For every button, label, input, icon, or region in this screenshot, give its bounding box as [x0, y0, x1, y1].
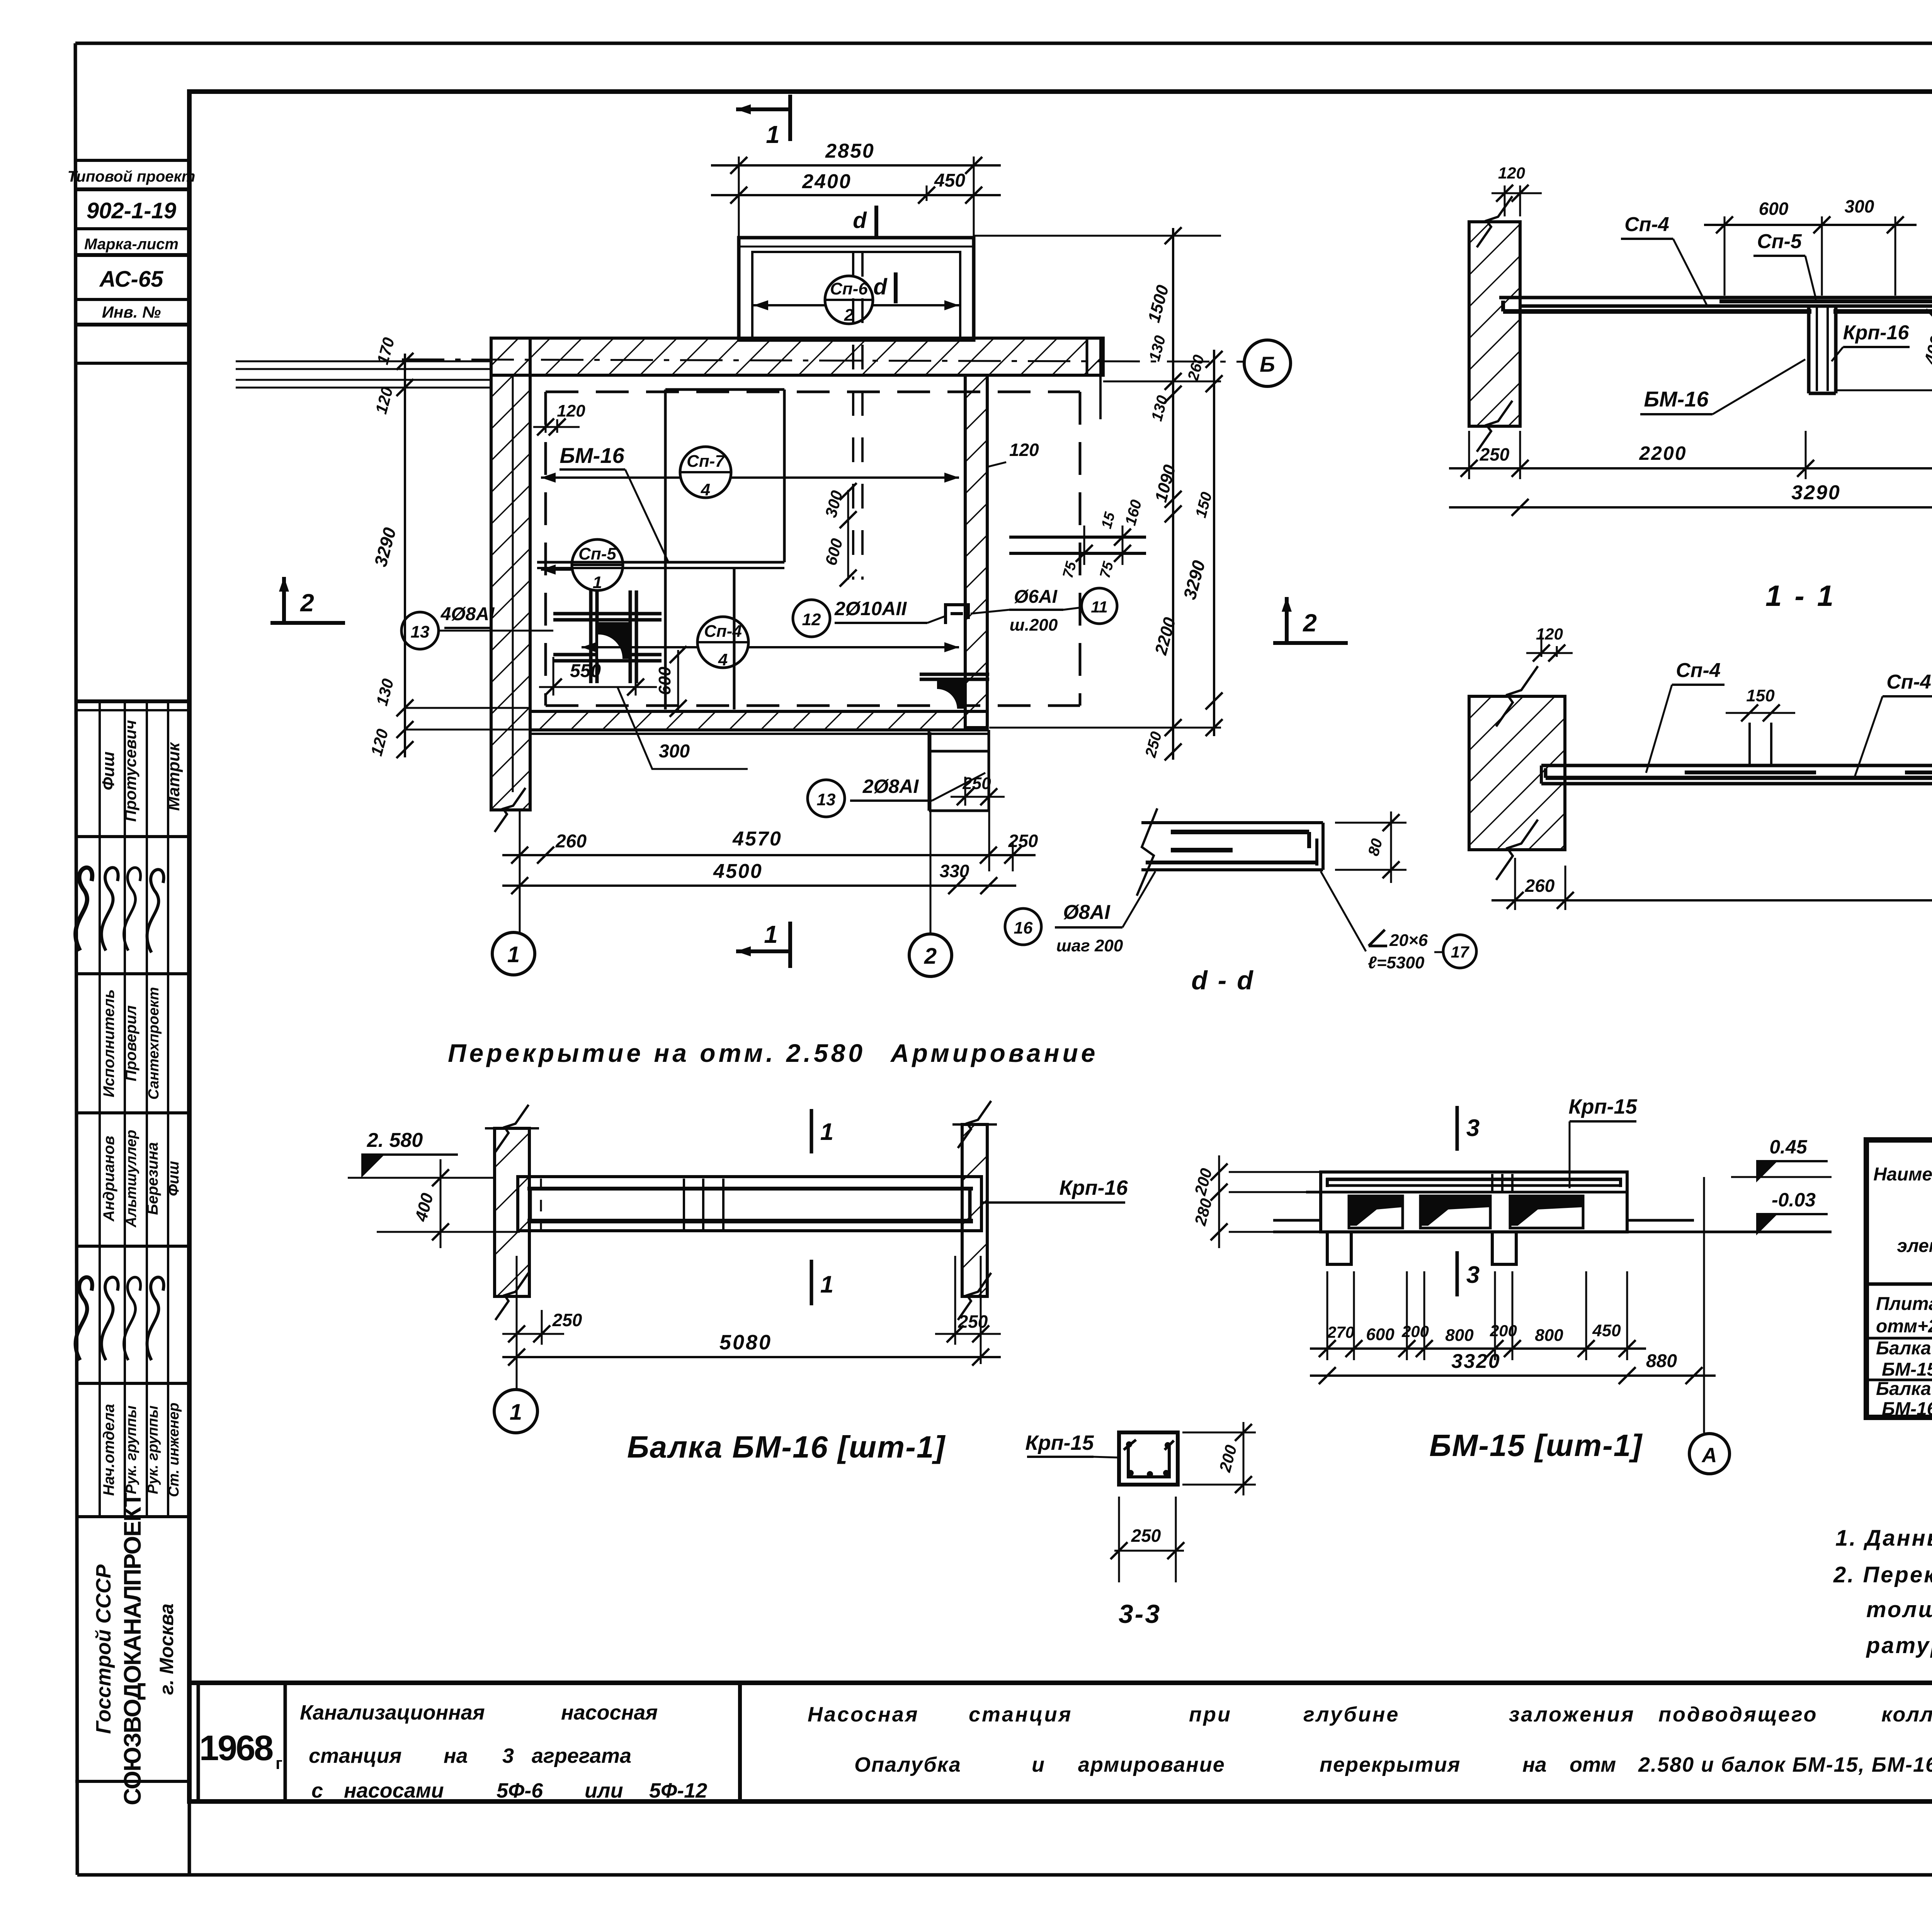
plan wall B end face line [1099, 338, 1102, 419]
signature grid [75, 699, 189, 703]
svg-text:600: 600 [655, 667, 674, 695]
svg-text:200: 200 [1490, 1322, 1517, 1340]
left strip vertical edge [188, 160, 191, 1875]
svg-text:1: 1 [820, 1271, 833, 1298]
svg-text:глубине: глубине [1303, 1703, 1400, 1726]
plan dim 600 rot [677, 650, 679, 713]
svg-text:2. 580: 2. 580 [367, 1129, 423, 1152]
svg-text:Госстрой СССР: Госстрой СССР [92, 1564, 115, 1734]
svg-text:1: 1 [593, 573, 602, 592]
svg-text:БМ-16: БМ-16 [1882, 1399, 1932, 1419]
svg-text:подводящего: подводящего [1658, 1703, 1818, 1726]
svg-text:1: 1 [766, 121, 780, 148]
svg-text:2: 2 [924, 944, 937, 969]
d-d label 17 angle [1369, 930, 1385, 946]
svg-text:СОЮЗВОДОКАНАЛПРОЕКТ: СОЮЗВОДОКАНАЛПРОЕКТ [119, 1492, 146, 1805]
bm16 right wall hatched [962, 1124, 987, 1296]
svg-text:3320: 3320 [1451, 1350, 1501, 1373]
section 1-1 dim 3290 [1449, 506, 1932, 509]
svg-text:Крп-15: Крп-15 [1568, 1095, 1637, 1118]
svg-text:600: 600 [1759, 199, 1789, 219]
svg-text:Перекрытие на отм. 2.580: Перекрытие на отм. 2.580 [448, 1039, 866, 1067]
svg-text:270: 270 [1327, 1323, 1354, 1341]
svg-text:11: 11 [1091, 598, 1108, 616]
plan dim 550 [553, 657, 554, 696]
plan sump below [928, 730, 930, 811]
bm16 top bar [527, 1187, 973, 1191]
svg-text:Проверил: Проверил [122, 1005, 139, 1081]
organization box [75, 1780, 189, 1783]
svg-text:шаг 200: шаг 200 [1056, 936, 1123, 955]
svg-text:на: на [1522, 1753, 1547, 1776]
svg-text:перекрытия: перекрытия [1320, 1753, 1461, 1776]
plan left dim chain [404, 354, 406, 757]
plan label 13 left 4d8AI [401, 612, 439, 649]
svg-text:5Ф-12: 5Ф-12 [649, 1779, 707, 1802]
svg-text:Исполнитель: Исполнитель [100, 989, 117, 1097]
bm15 rib stubs [1327, 1232, 1351, 1264]
d-d bars [1171, 830, 1309, 834]
bm16 bottom bar [527, 1219, 973, 1223]
section 1-1 dim 120 top [1504, 185, 1506, 216]
svg-text:1: 1 [507, 942, 520, 967]
svg-text:Крп-16: Крп-16 [1059, 1176, 1128, 1199]
svg-text:3: 3 [1466, 1262, 1480, 1288]
plan corner embed plate right [937, 680, 965, 709]
svg-text:г. Москва: г. Москва [156, 1604, 177, 1695]
plan extension joint dashed pair [852, 252, 854, 580]
svg-text:1 - 1: 1 - 1 [1765, 580, 1836, 612]
svg-text:Типовой проект: Типовой проект [68, 168, 196, 185]
svg-text:Березина: Березина [144, 1142, 161, 1215]
plan dims 300 600 right rot [847, 490, 849, 580]
bm16 dashed end [540, 1179, 542, 1230]
plan right wall A hatched [965, 375, 987, 728]
svg-text:4: 4 [718, 650, 728, 669]
bm15 flange rebar [1326, 1178, 1622, 1181]
svg-text:1. Данный лист см. совместн: 1. Данный лист см. совместно с листом АС… [1835, 1526, 1932, 1551]
materials table frame [1866, 1140, 1932, 1417]
bm15 dim 3320 [1310, 1374, 1646, 1377]
svg-text:260: 260 [1525, 876, 1555, 896]
svg-text:250: 250 [962, 774, 991, 793]
svg-text:13: 13 [817, 790, 836, 809]
svg-text:насосами: насосами [344, 1779, 444, 1802]
svg-text:А: А [1701, 1444, 1717, 1467]
svg-text:Плита на: Плита на [1876, 1294, 1932, 1314]
d-d slab piece [1141, 821, 1323, 824]
3-3 dim 250 [1118, 1497, 1120, 1582]
svg-text:2: 2 [300, 589, 314, 617]
svg-text:станция: станция [969, 1703, 1072, 1726]
plan top dim 2850 [738, 156, 740, 238]
bm16 dim 5080 [502, 1356, 1001, 1358]
plan top wall hatched [491, 338, 1103, 375]
3-3 square outline [1119, 1432, 1178, 1485]
svg-text:1: 1 [764, 920, 778, 948]
svg-text:d: d [873, 274, 888, 299]
svg-text:4500: 4500 [713, 860, 763, 883]
svg-text:120: 120 [557, 401, 585, 420]
plan section mark 2 left [282, 577, 286, 623]
bm15 bottom dim chain [1327, 1271, 1328, 1360]
plan dim 120 left small [545, 406, 547, 433]
svg-text:2Ø8АI: 2Ø8АI [862, 776, 919, 797]
svg-text:-0.03: -0.03 [1772, 1189, 1816, 1211]
svg-text:Ø6АI: Ø6АI [1014, 587, 1058, 607]
plan rebar cluster bars vertical [589, 590, 593, 683]
svg-text:902-1-19: 902-1-19 [87, 198, 176, 223]
plan right dim chain 2 [1213, 350, 1215, 736]
svg-text:120: 120 [1498, 164, 1525, 182]
svg-text:16: 16 [1014, 919, 1033, 937]
plan label 13 bottom 2d8AI [808, 780, 845, 817]
plan corner embed plate left [598, 622, 630, 659]
plan left wall hatched [491, 338, 530, 810]
svg-text:3: 3 [502, 1744, 514, 1767]
title block frame [189, 1681, 1932, 1685]
svg-text:150: 150 [1746, 686, 1775, 705]
plan grid circle 1 [492, 932, 535, 975]
svg-text:отм: отм [1570, 1753, 1616, 1776]
svg-text:ℓ=5300: ℓ=5300 [1368, 953, 1425, 972]
plan axis B circle [1244, 340, 1291, 386]
svg-text:Марка-лист: Марка-лист [84, 236, 179, 253]
svg-text:2.580 и балок БМ-15, БМ-16: 2.580 и балок БМ-15, БМ-16 [1638, 1753, 1932, 1776]
section 1-1 left wall hatched [1469, 222, 1520, 426]
svg-text:при: при [1189, 1703, 1232, 1726]
svg-text:2Ø10АII: 2Ø10АII [834, 598, 907, 619]
svg-text:Андрианов: Андрианов [100, 1136, 117, 1222]
svg-text:200: 200 [1401, 1322, 1429, 1340]
plan right dim chain 1 [1172, 228, 1174, 760]
svg-text:120: 120 [1009, 440, 1039, 460]
plan grid circle 2 [909, 934, 952, 976]
svg-text:Фиш: Фиш [165, 1161, 182, 1196]
bm15 outline [1321, 1172, 1627, 1232]
svg-text:Опалубка: Опалубка [854, 1753, 961, 1776]
svg-text:Рук. группы: Рук. группы [145, 1405, 161, 1494]
svg-text:БМ-15: БМ-15 [1882, 1359, 1932, 1380]
section 2-2 bottom bar [1546, 776, 1932, 780]
plan bottom-right bars [920, 673, 989, 676]
svg-text:250: 250 [1480, 444, 1510, 464]
svg-text:с: с [311, 1779, 323, 1802]
bm16 dim 400 rot [440, 1159, 442, 1248]
svg-text:Сп-4: Сп-4 [1624, 213, 1669, 236]
plan bottom wall hatched [530, 711, 987, 730]
svg-text:3: 3 [1466, 1115, 1480, 1141]
svg-text:300: 300 [1845, 196, 1874, 216]
bm16 dims 250 [516, 1256, 518, 1364]
svg-text:1: 1 [820, 1119, 833, 1145]
svg-text:Рук. группы: Рук. группы [123, 1405, 139, 1494]
plan small dims 15 160 75 [1009, 536, 1146, 539]
svg-text:800: 800 [1445, 1326, 1474, 1345]
svg-text:4570: 4570 [732, 828, 782, 850]
svg-text:элем.: элем. [1897, 1236, 1932, 1256]
section 2-2 stirrup pairs and 150 dims [1748, 723, 1751, 767]
svg-text:2400: 2400 [802, 170, 852, 193]
signature scribbles row5 [76, 1277, 92, 1360]
sheet outer border [75, 42, 1932, 45]
plan bottom dim chains [519, 811, 521, 933]
svg-text:Сп-4: Сп-4 [704, 622, 742, 641]
section 1-1 slab [1499, 296, 1932, 299]
plan section mark 1 top [736, 107, 790, 111]
plan bottom wall lower face line [530, 733, 989, 735]
bm15 stirrup pair middle [1491, 1174, 1493, 1191]
svg-text:260: 260 [555, 831, 587, 852]
svg-text:2: 2 [1303, 609, 1317, 637]
bm15 section 3 marks [1456, 1106, 1459, 1151]
svg-text:АС-65: АС-65 [99, 267, 163, 292]
plan section mark 2 right [1285, 597, 1289, 643]
svg-text:на: на [444, 1744, 468, 1767]
bm16 left wall hatched [495, 1128, 529, 1296]
svg-text:2200: 2200 [1639, 442, 1687, 464]
svg-text:БМ-16: БМ-16 [560, 443, 624, 468]
svg-text:1: 1 [510, 1400, 522, 1425]
plan panel mark Cp-4 circle [697, 617, 748, 668]
section 1-1 bottom dim chain [1468, 431, 1470, 479]
svg-text:БМ-16: БМ-16 [1644, 387, 1709, 411]
plan extension room walls [739, 238, 974, 340]
svg-text:17: 17 [1451, 943, 1469, 961]
section 2-2 slab [1541, 764, 1932, 767]
svg-text:станция: станция [309, 1744, 401, 1767]
svg-text:агрегата: агрегата [532, 1744, 631, 1767]
svg-text:армирование: армирование [1078, 1753, 1225, 1776]
plan sump dim 250 [964, 777, 966, 806]
bm15 haunch wedges [1349, 1196, 1403, 1228]
section 1-1 beam BM-16 below slab [1807, 306, 1811, 393]
svg-text:450: 450 [934, 170, 965, 191]
section 2-2 dim 120 top [1541, 630, 1543, 657]
svg-text:Крп-16: Крп-16 [1843, 321, 1910, 344]
bm16 section marks 1 [810, 1109, 813, 1153]
svg-text:Протусевич: Протусевич [121, 720, 139, 822]
svg-text:880: 880 [1646, 1351, 1677, 1371]
bm16 end bars [529, 1189, 532, 1221]
section 1-1 rebar top bars [1719, 299, 1932, 303]
svg-text:2. Перекрытие на отм.2.580: 2. Перекрытие на отм.2.580 разработано д… [1833, 1562, 1932, 1587]
section 2-2 lap bars [1685, 771, 1816, 774]
section 2-2 left wall hatched [1469, 696, 1565, 850]
svg-text:0.45: 0.45 [1769, 1136, 1808, 1158]
svg-text:коллектора: коллектора [1881, 1703, 1932, 1726]
svg-text:ратуре -30° с: ратуре -30° с [1866, 1633, 1932, 1658]
svg-text:2: 2 [844, 306, 854, 325]
3-3 dim 200 rot [1182, 1432, 1256, 1434]
svg-text:или: или [585, 1779, 623, 1802]
bm15 slab ext left [1273, 1219, 1321, 1222]
plan section mark 1 bottom [736, 949, 790, 953]
svg-text:Армирование: Армирование [890, 1039, 1098, 1067]
svg-text:3290: 3290 [1791, 481, 1841, 504]
svg-text:3-3: 3-3 [1119, 1599, 1161, 1629]
svg-text:5080: 5080 [719, 1331, 772, 1354]
bm16 stirrups middle [683, 1179, 685, 1230]
svg-text:800: 800 [1535, 1326, 1563, 1345]
svg-text:Балка БМ-16 [шт-1]: Балка БМ-16 [шт-1] [627, 1430, 946, 1464]
svg-text:330: 330 [940, 861, 969, 881]
d-d label 16 d8AI [1005, 908, 1041, 945]
svg-text:1968: 1968 [199, 1728, 273, 1768]
plan rebar cluster bars horizontal [553, 612, 662, 616]
svg-text:Сп-4: Сп-4 [1676, 659, 1721, 682]
3-3 stirrup [1128, 1445, 1169, 1477]
svg-text:заложения: заложения [1509, 1703, 1635, 1726]
svg-text:600: 600 [1366, 1325, 1395, 1344]
bm15 left dims 200 280 [1229, 1171, 1321, 1173]
plan panel mark Cp-6 circle [825, 276, 873, 324]
svg-text:250: 250 [1131, 1526, 1161, 1546]
plan top dim 2400 450 [926, 185, 928, 201]
plan interior panel lines [664, 390, 667, 709]
svg-text:250: 250 [1008, 831, 1038, 851]
svg-text:550: 550 [570, 661, 601, 681]
svg-text:Наименов.: Наименов. [1873, 1164, 1932, 1185]
svg-text:Б: Б [1260, 352, 1275, 376]
section 2-2 bottom dim chain [1514, 858, 1516, 910]
svg-text:и: и [1032, 1753, 1044, 1776]
svg-text:толщины стены при наружно: толщины стены при наружной расчетной тем… [1866, 1597, 1932, 1622]
plan bar bracket symbol [946, 605, 968, 624]
left strip header rows [75, 159, 189, 162]
svg-text:Крп-15: Крп-15 [1025, 1431, 1094, 1454]
plan right wall B hatched [1087, 338, 1103, 375]
svg-text:120: 120 [1536, 625, 1563, 643]
section 1-1 rebar bottom bars [1503, 309, 1811, 314]
plan left wall break [495, 788, 526, 832]
bm16 grid circle 1 [494, 1390, 537, 1433]
svg-text:Сп-7: Сп-7 [687, 452, 725, 471]
svg-text:250: 250 [552, 1310, 582, 1330]
svg-text:Балка: Балка [1876, 1379, 1931, 1399]
svg-text:12: 12 [802, 610, 821, 629]
svg-text:d - d: d - d [1191, 966, 1255, 995]
svg-text:4: 4 [701, 480, 710, 499]
plan panel mark Cp-7 circle [680, 447, 731, 498]
svg-text:250: 250 [958, 1311, 988, 1332]
svg-text:5Ф-6: 5Ф-6 [497, 1779, 543, 1802]
svg-text:Инв. №: Инв. № [102, 303, 161, 321]
svg-text:Сп-6: Сп-6 [830, 279, 868, 298]
svg-text:г: г [276, 1754, 282, 1773]
d-d dim 80 rot [1335, 822, 1406, 824]
plan label 12 2d10AII [793, 600, 830, 637]
bm16 beam outline [518, 1177, 981, 1231]
svg-text:Сп-5: Сп-5 [1757, 230, 1802, 253]
bm15 slab ext right [1627, 1219, 1694, 1222]
section 1-1 dims 600 300 [1724, 216, 1726, 296]
svg-text:Канализационная: Канализационная [300, 1701, 485, 1724]
svg-text:450: 450 [1592, 1321, 1621, 1340]
plan panel mark Cp-5 circle [572, 539, 623, 590]
svg-text:2850: 2850 [825, 140, 875, 162]
bm15 flange line [1321, 1191, 1627, 1194]
svg-text:4Ø8АI: 4Ø8АI [440, 604, 495, 624]
plan slab edge dashed rect [546, 391, 1080, 393]
svg-text:Фиш: Фиш [99, 752, 118, 790]
svg-text:20×6: 20×6 [1389, 931, 1428, 950]
svg-text:Сантехпроект: Сантехпроект [146, 987, 162, 1099]
bm15 grid circle A [1703, 1177, 1705, 1433]
svg-text:13: 13 [411, 623, 430, 641]
svg-text:Ø8АI: Ø8АI [1063, 901, 1111, 924]
svg-text:Насосная: Насосная [808, 1703, 919, 1726]
svg-text:отм+2.580: отм+2.580 [1876, 1316, 1932, 1337]
plan axis B dash-dot line [402, 359, 1244, 362]
svg-text:300: 300 [659, 741, 690, 762]
svg-text:БМ-15 [шт-1]: БМ-15 [шт-1] [1429, 1428, 1643, 1463]
svg-text:Сп-5: Сп-5 [578, 544, 616, 563]
signature scribbles row2 [76, 867, 92, 951]
svg-text:ш.200: ш.200 [1010, 616, 1058, 634]
svg-text:насосная: насосная [561, 1701, 658, 1724]
svg-text:Ст. инженер: Ст. инженер [166, 1403, 182, 1497]
svg-text:Балка: Балка [1876, 1338, 1931, 1359]
bm15 dim 880 [1627, 1374, 1716, 1377]
svg-text:Сп-4: Сп-4 [1886, 671, 1931, 693]
svg-text:Нач.отдела: Нач.отдела [100, 1404, 117, 1496]
svg-text:Альтшуллер: Альтшуллер [123, 1130, 139, 1228]
svg-text:d: d [853, 208, 867, 233]
svg-text:Матрик: Матрик [164, 742, 183, 811]
